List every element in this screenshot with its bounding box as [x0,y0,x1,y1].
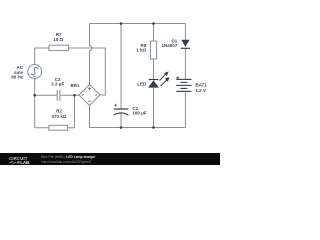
wire D1 to battery [184,49,186,80]
AC source sine glyph [29,66,39,76]
wire AC bottom riser [34,79,36,128]
wire BR1 bottom riser [89,106,91,128]
wire C1 branch lower [120,113,122,127]
wire bottom rail [90,127,186,129]
svg-text:Alex Feb (febb) | LED Lamp cha: Alex Feb (febb) | LED Lamp charger [41,155,96,159]
svg-text:1.2 V: 1.2 V [195,88,206,93]
wire R2 loop [35,95,75,127]
LED arrow 1 [160,71,169,80]
junction node C2 / R2 riser [73,94,76,97]
svg-text:10 Ω: 10 Ω [53,37,63,42]
BR1 ac tick left [82,94,84,96]
BR1 plus mark [88,87,91,90]
junction node top rail / C1 [120,22,123,25]
svg-text:http://circuitlab.com/c5e7t23g: http://circuitlab.com/c5e7t23gbzv8 [41,160,91,164]
footer logo chip icon [17,161,19,163]
wire battery to bottom rail [184,91,186,127]
wire top rail [90,23,186,25]
svg-text:BR1: BR1 [70,83,79,88]
wire C1 branch upper [120,24,122,110]
battery BAT1 plates [176,79,191,91]
LED triangle [148,80,159,87]
footer bar [0,153,220,165]
resistor R7 box [49,45,69,50]
D1 cathode bar [181,47,190,49]
capacitor C2 plates [57,90,60,101]
wire BR1 top riser with hop [90,24,92,85]
AC source V1 circle [28,65,42,79]
svg-text:3.3 μF: 3.3 μF [51,82,64,87]
wire LED branch upper (to R8) [153,24,155,42]
AC source minus mark [33,76,36,78]
C1 bottom curved plate [114,113,129,115]
svg-text:LAB: LAB [20,160,29,165]
wire R8 to LED [153,59,155,80]
BAT1 plus mark [176,76,179,79]
footer logo waveform [9,161,17,164]
wire LED to bottom rail [153,88,155,128]
BR1 ac tick right [95,94,97,96]
svg-text:LED: LED [137,82,147,87]
svg-text:370 kΩ: 370 kΩ [52,114,67,119]
wire R7 to BR1 right vertex [69,48,106,95]
C1 plus mark [114,104,117,107]
svg-text:1 kΩ: 1 kΩ [136,48,146,53]
wire AC top to R7 [35,48,49,65]
diode D1 triangle [181,40,189,47]
junction node bottom rail / LED branch [152,126,155,129]
svg-text:1N4007: 1N4007 [162,43,178,48]
wire C2 left [35,94,58,96]
svg-text:R2: R2 [56,109,62,114]
BR1 minus mark [88,100,91,102]
junction node top rail / LED branch [152,22,155,25]
bridge rectifier BR1 diamond [79,85,100,106]
wire right rail D1 segment [184,24,186,40]
junction node AC / C2 [33,94,36,97]
LED bar [149,79,159,81]
capacitor C1 top plate [114,108,129,110]
resistor R2 box [49,125,68,130]
resistor R8 box [150,41,156,59]
svg-text:60 Hz: 60 Hz [11,75,24,80]
wire C2 right to BR1 [60,94,79,96]
svg-text:100 μF: 100 μF [132,111,147,116]
LED arrow 2 [161,77,170,86]
junction node bottom rail / C1 [120,126,123,129]
